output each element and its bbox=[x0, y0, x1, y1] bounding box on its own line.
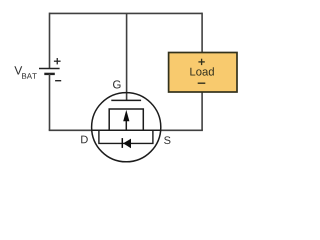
wire battery positive lead bbox=[49, 13, 51, 69]
battery VBAT bbox=[39, 69, 60, 74]
wire top rail (battery+ to load+) bbox=[50, 12, 203, 14]
pin label D bbox=[81, 136, 88, 144]
battery - polarity label bbox=[55, 80, 61, 82]
wire load negative lead bbox=[201, 92, 203, 131]
pin label G bbox=[113, 80, 121, 88]
pin label S bbox=[164, 136, 170, 144]
transistor Q1 P-channel MOSFET body circle bbox=[92, 93, 161, 162]
load + polarity label bbox=[198, 59, 204, 65]
wire gate lead (top rail to gate) bbox=[126, 13, 128, 100]
transistor Q1 channel (hat) bbox=[109, 109, 143, 130]
transistor Q1 drain-source line bbox=[92, 129, 161, 131]
transistor Q1 substrate arrow (points up) bbox=[123, 110, 129, 130]
load box bbox=[169, 53, 237, 93]
load name label bbox=[190, 67, 213, 75]
battery + polarity label bbox=[54, 58, 61, 64]
label VBAT bbox=[14, 66, 36, 79]
wire bottom left (battery- to drain) bbox=[49, 129, 92, 131]
transistor Q1 gate bar bbox=[111, 99, 141, 101]
load - polarity label bbox=[198, 82, 206, 84]
wire battery negative lead bbox=[49, 74, 51, 130]
wire source to load (bottom right) bbox=[160, 129, 203, 131]
wire body-diode loop bbox=[99, 130, 153, 143]
wire load positive lead bbox=[201, 13, 203, 53]
diode D1 (body diode, cathode bar + arrow pointing left) bbox=[122, 138, 131, 148]
